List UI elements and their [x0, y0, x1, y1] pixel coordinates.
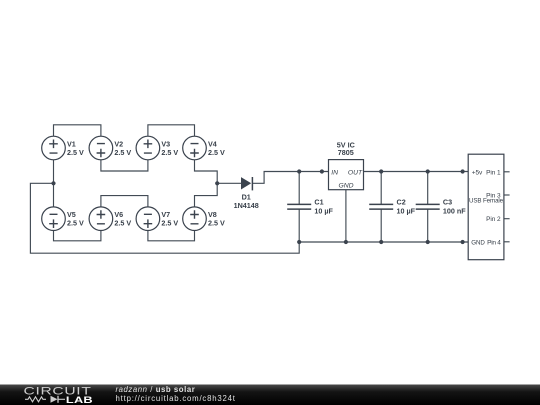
wire V1 bottom to V5 top — [53, 160, 55, 207]
wire top jog V3-V4 — [148, 125, 195, 136]
svg-text:2.5 V: 2.5 V — [67, 219, 84, 228]
svg-text:Pin 4: Pin 4 — [487, 239, 501, 246]
junction C3 bottom — [426, 240, 430, 244]
svg-text:1N4148: 1N4148 — [234, 201, 259, 210]
svg-text:+5v: +5v — [472, 170, 483, 177]
junction C3 top — [426, 169, 430, 173]
IC U1 7805 regulator box — [329, 160, 364, 190]
svg-text:V8: V8 — [208, 210, 217, 219]
diode D1 — [241, 177, 252, 190]
svg-text:2.5 V: 2.5 V — [114, 148, 131, 157]
wire top jog V1-V2 — [54, 125, 101, 136]
junction GND bottom — [344, 240, 348, 244]
svg-text:Pin 2: Pin 2 — [486, 216, 501, 223]
svg-text:C3: C3 — [443, 198, 452, 207]
wire bottom jog V5-V6 — [54, 231, 101, 241]
svg-text:V1: V1 — [67, 139, 76, 148]
junction C1 bottom — [297, 240, 301, 244]
svg-text:GND: GND — [338, 183, 353, 190]
pin 1 stub — [504, 171, 510, 173]
svg-text:LAB: LAB — [66, 395, 93, 405]
voltage source V3 — [136, 136, 160, 160]
svg-text:7805: 7805 — [338, 148, 354, 157]
pin 4 stub — [504, 241, 510, 243]
svg-text:V2: V2 — [114, 139, 123, 148]
wire C3 leads — [427, 172, 429, 205]
wire node B to diode anode — [217, 182, 241, 184]
svg-text:2.5 V: 2.5 V — [208, 148, 225, 157]
voltage source V1 — [42, 136, 66, 160]
svg-text:OUT: OUT — [348, 169, 363, 176]
junction node B — [215, 181, 219, 185]
junction GND pin wire — [461, 240, 465, 244]
svg-text:2.5 V: 2.5 V — [208, 219, 225, 228]
wire C1 leads — [298, 172, 300, 205]
wire V4 bottom to node A — [195, 160, 218, 184]
svg-text:2.5 V: 2.5 V — [114, 219, 131, 228]
wire C2 leads — [380, 172, 382, 205]
wire OUT to USB box — [364, 171, 469, 173]
svg-text:Pin 1: Pin 1 — [486, 170, 501, 177]
wire IC GND pin down — [345, 190, 347, 242]
wire V8 top to node B — [195, 183, 218, 207]
wire diode cathode to top rail — [253, 172, 329, 184]
logo diode — [51, 396, 58, 403]
svg-text:2.5 V: 2.5 V — [67, 148, 84, 157]
wire node A-left to bottom rail — [30, 183, 299, 253]
svg-text:2.5 V: 2.5 V — [161, 148, 178, 157]
pin 3 stub — [504, 194, 510, 196]
pin 2 stub — [504, 218, 510, 220]
junction IN wire — [320, 169, 324, 173]
junction C2 bottom — [379, 240, 383, 244]
footer bar — [0, 385, 540, 405]
svg-text:100 nF: 100 nF — [443, 207, 466, 216]
svg-text:10 µF: 10 µF — [397, 207, 416, 216]
svg-text:2.5 V: 2.5 V — [161, 219, 178, 228]
voltage source V8 — [183, 207, 207, 231]
wire bottom rail — [299, 241, 468, 243]
svg-text:V4: V4 — [208, 139, 217, 148]
svg-text:USB Female: USB Female — [469, 197, 504, 204]
svg-text:GND: GND — [471, 239, 485, 246]
svg-text:C1: C1 — [314, 198, 323, 207]
capacitor C3 — [416, 204, 440, 209]
voltage source V2 — [89, 136, 113, 160]
voltage source V6 — [89, 207, 113, 231]
capacitor C2 — [369, 204, 393, 209]
svg-text:http://circuitlab.com/c8h324t: http://circuitlab.com/c8h324t — [116, 394, 236, 403]
svg-text:10 µF: 10 µF — [314, 207, 333, 216]
svg-text:C2: C2 — [397, 198, 406, 207]
wire bottom jog V2-V3 — [101, 160, 148, 171]
junction C2 top — [379, 169, 383, 173]
voltage source V7 — [136, 207, 160, 231]
junction C1 top — [297, 169, 301, 173]
junction node A — [51, 181, 55, 185]
USB female connector J1 box — [468, 154, 504, 260]
svg-text:V6: V6 — [114, 210, 123, 219]
svg-text:IN: IN — [331, 169, 338, 176]
svg-text:radzann / usb solar: radzann / usb solar — [116, 385, 196, 394]
junction +5v wire — [461, 169, 465, 173]
svg-text:V3: V3 — [161, 139, 170, 148]
svg-text:V7: V7 — [161, 210, 170, 219]
CircuitLab logo resistor zigzag and diode — [25, 397, 65, 402]
svg-text:V5: V5 — [67, 210, 76, 219]
capacitor C1 — [287, 204, 311, 209]
voltage source V4 — [183, 136, 207, 160]
voltage source V5 — [42, 207, 66, 231]
wire top jog V6-V7 — [101, 196, 148, 207]
wire bottom jog V7-V8 — [148, 231, 195, 241]
